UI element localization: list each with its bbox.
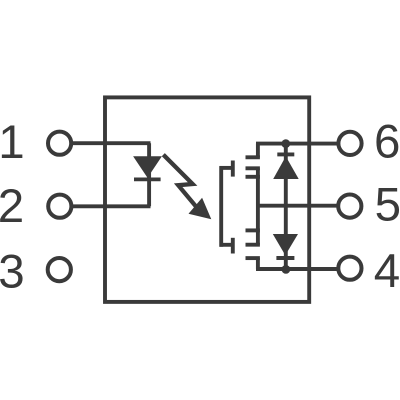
svg-text:3: 3 bbox=[0, 246, 25, 299]
svg-text:2: 2 bbox=[0, 180, 24, 233]
svg-text:1: 1 bbox=[0, 116, 25, 169]
svg-text:6: 6 bbox=[374, 116, 400, 169]
svg-text:4: 4 bbox=[374, 245, 400, 298]
svg-text:5: 5 bbox=[375, 179, 400, 232]
